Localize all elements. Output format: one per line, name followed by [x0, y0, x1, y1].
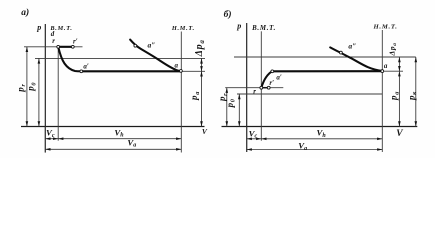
svg-text:a′: a′	[276, 73, 282, 81]
curve a'' to a	[330, 47, 382, 71]
dimension row V_c	[247, 138, 262, 140]
point a	[381, 70, 384, 73]
svg-text:r: r	[52, 37, 55, 45]
svg-text:p: p	[36, 23, 41, 32]
dimension row V_a	[45, 148, 181, 150]
point r	[57, 45, 60, 48]
svg-text:Δpa: Δpa	[194, 39, 206, 57]
svg-text:В.М.Т.: В.М.Т.	[251, 25, 276, 32]
svg-text:Vc: Vc	[46, 128, 55, 139]
НМТ line	[381, 30, 383, 152]
point r'	[267, 86, 270, 89]
НМТ line	[180, 32, 182, 153]
dimension p_r	[26, 47, 28, 127]
svg-text:pa: pa	[389, 91, 401, 101]
dimension p_0	[238, 94, 240, 127]
svg-text:r: r	[253, 87, 256, 95]
dimension row V_c	[45, 138, 58, 140]
point a'	[80, 70, 83, 73]
svg-text:pr: pr	[217, 93, 229, 102]
intake line a'-a (thick)	[272, 70, 382, 72]
exhaust line r-r' (thick)	[261, 87, 268, 89]
svg-text:a′: a′	[83, 62, 89, 70]
svg-text:r′: r′	[269, 79, 274, 87]
point r	[260, 86, 263, 89]
p axis	[44, 24, 46, 153]
dimension delta p_a	[398, 57, 400, 71]
svg-text:pa: pa	[189, 91, 201, 101]
V axis (baseline)	[222, 126, 418, 128]
svg-text:Vh: Vh	[317, 128, 327, 139]
p axis extension below baseline	[44, 127, 46, 153]
dimension row V_h	[261, 138, 382, 140]
intake line a'-a (thick)	[81, 70, 181, 72]
dimension row V_a	[247, 149, 383, 151]
svg-text:p0: p0	[26, 82, 38, 92]
dimension delta p_a	[201, 58, 203, 71]
intake level extension right	[181, 70, 205, 72]
point r'	[71, 45, 74, 48]
dimension p_0	[38, 58, 40, 126]
svg-text:Va: Va	[298, 141, 307, 152]
exhaust line r-r' (thick)	[58, 46, 73, 48]
svg-text:a″: a″	[348, 41, 356, 50]
p axis extension below baseline	[246, 127, 248, 153]
svg-text:V: V	[396, 129, 403, 139]
dimension p_a	[398, 71, 400, 126]
svg-text:Vh: Vh	[114, 127, 124, 138]
p_k level line	[234, 56, 416, 58]
ВМТ line	[260, 31, 262, 140]
svg-text:Н.М.Т.: Н.М.Т.	[373, 24, 398, 31]
p axis	[246, 23, 248, 152]
svg-text:a: a	[175, 61, 179, 69]
intake level extension right	[382, 70, 403, 72]
p_r level line	[24, 46, 83, 48]
dimension p_r	[226, 88, 228, 127]
svg-text:а): а)	[21, 7, 29, 18]
point a''	[340, 51, 343, 54]
dimension p_a	[201, 71, 203, 126]
svg-text:a: a	[384, 62, 388, 70]
dimension p_k	[415, 57, 417, 127]
p0 level line	[237, 93, 382, 95]
curve a'' to a	[130, 40, 181, 71]
svg-text:б): б)	[224, 9, 232, 20]
svg-text:a″: a″	[148, 41, 156, 50]
point a	[180, 70, 183, 73]
V axis (baseline)	[21, 126, 205, 128]
r level line	[225, 87, 283, 89]
curve r to a'	[261, 71, 272, 87]
point a'	[271, 70, 274, 73]
dimension row V_h	[58, 138, 181, 140]
svg-text:V: V	[202, 127, 208, 136]
svg-text:Vc: Vc	[249, 128, 258, 139]
svg-text:Н.М.Т.: Н.М.Т.	[171, 25, 195, 32]
svg-text:r′: r′	[73, 38, 78, 46]
p0 level line	[35, 57, 205, 59]
svg-text:pк: pк	[406, 91, 418, 101]
point a''	[134, 44, 137, 47]
svg-text:Δpa: Δpa	[388, 42, 399, 56]
curve r to a'	[58, 47, 81, 71]
ВМТ line	[57, 47, 59, 141]
svg-text:p: p	[236, 22, 241, 31]
